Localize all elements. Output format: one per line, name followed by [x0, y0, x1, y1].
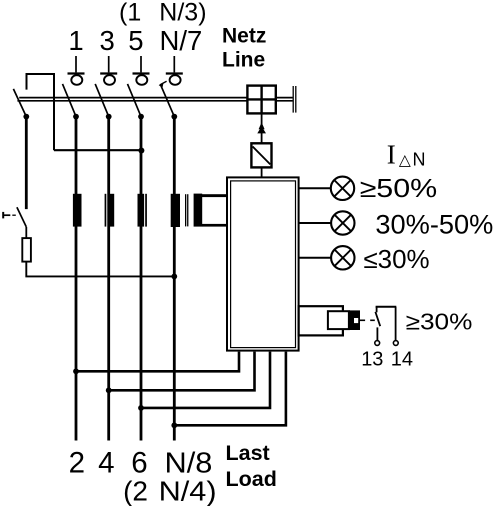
svg-text:14: 14 [391, 348, 413, 370]
device box U1 [227, 177, 299, 350]
blade arrow tip [159, 81, 167, 87]
test button T [3, 212, 16, 219]
CT primary bar L1 [73, 194, 82, 227]
wire to resistor [25, 227, 27, 238]
terminal N/7 [166, 56, 183, 85]
test wire down [25, 117, 28, 210]
node tap4 [171, 422, 177, 428]
terminal 5 [133, 56, 150, 85]
svg-text:N: N [413, 150, 426, 170]
svg-text:(2: (2 [123, 476, 148, 506]
pivot node pole 5 [138, 114, 144, 120]
tap wire 4 [174, 352, 286, 426]
pivot node test pole [23, 114, 29, 120]
node on line 5 [138, 148, 144, 154]
bus to socket lower [276, 100, 293, 102]
wire plug to release [261, 113, 263, 143]
switch pole test blade [13, 89, 26, 117]
arrow up [257, 122, 266, 133]
switch pole N blade [160, 84, 174, 117]
svg-text:4: 4 [98, 447, 114, 480]
label (1 N/3) [119, 0, 207, 27]
svg-text:N/3): N/3) [159, 0, 206, 27]
svg-text:Load: Load [226, 467, 277, 491]
pivot node pole 3 [106, 114, 112, 120]
terminal 1 [68, 56, 85, 85]
bus to socket upper [276, 97, 293, 99]
svg-text:Last: Last [226, 441, 270, 465]
bus line upper [19, 97, 247, 99]
svg-text:≥50%: ≥50% [360, 175, 438, 203]
CT primary bar L3 [138, 194, 147, 227]
svg-text:30%-50%: 30%-50% [375, 209, 493, 239]
CT primary bar L2 [105, 194, 115, 227]
release box [251, 143, 271, 167]
lamp wire 1 [299, 187, 331, 189]
svg-text:3: 3 [100, 25, 115, 56]
pivot node pole N [171, 114, 177, 120]
svg-text:N/7: N/7 [160, 25, 203, 56]
CT core [185, 194, 188, 226]
relay frame [299, 306, 343, 335]
CT primary bar N [171, 194, 180, 227]
resistor R test [22, 238, 31, 262]
lamp H1 [331, 177, 354, 200]
label I delta N [387, 140, 426, 170]
relay armature [349, 310, 360, 330]
svg-text:I: I [387, 140, 396, 170]
device box inner line [231, 181, 296, 348]
svg-text:2: 2 [69, 447, 85, 480]
conductor L3 [140, 117, 143, 441]
pivot node pole 1 [73, 114, 79, 120]
svg-text:≤30%: ≤30% [363, 246, 429, 274]
wire bracket to node [54, 149, 142, 151]
node tap1 [73, 368, 79, 374]
test bracket wire [27, 74, 55, 150]
label (2 N/4) [123, 476, 217, 506]
switch pole 5 blade [128, 84, 142, 117]
svg-text:5: 5 [128, 25, 143, 56]
socket bars [293, 86, 296, 113]
svg-text:Line: Line [222, 49, 265, 72]
node test on N [171, 274, 177, 280]
relay coil square [328, 311, 349, 329]
svg-text:(1: (1 [119, 0, 141, 27]
svg-text:13: 13 [361, 348, 383, 370]
terminal circle 13 [375, 341, 380, 346]
svg-text:N/4): N/4) [159, 476, 217, 506]
terminal 3 [100, 56, 117, 85]
lamp wire 2 [299, 222, 332, 224]
wire release to box [261, 167, 263, 177]
plug connector [247, 86, 275, 114]
switch pole 1 blade [63, 84, 77, 117]
conductor L1 [75, 117, 78, 441]
actuator dashes [360, 319, 375, 321]
lamp wire 3 [299, 257, 332, 259]
tap wire 2 [109, 352, 255, 391]
tap wire 1 [76, 352, 239, 372]
svg-text:1: 1 [68, 25, 83, 56]
svg-text:≥30%: ≥30% [406, 309, 473, 335]
svg-text:△: △ [399, 152, 411, 169]
tap wire 3 [141, 352, 270, 408]
switch pole 3 blade [95, 84, 109, 117]
terminal circle 14 [393, 341, 398, 346]
conductor N [173, 117, 176, 441]
lamp H3 [331, 246, 354, 269]
wire resistor to N [26, 262, 174, 277]
CT secondary winding [194, 194, 228, 227]
contact 13-14 [375, 307, 396, 341]
svg-text:Netz: Netz [222, 25, 266, 48]
node tap3 [138, 405, 144, 411]
test contact blade [17, 207, 26, 227]
bus line lower [17, 100, 247, 102]
node tap2 [106, 387, 112, 393]
conductor L2 [107, 117, 110, 441]
lamp H2 [331, 211, 354, 234]
